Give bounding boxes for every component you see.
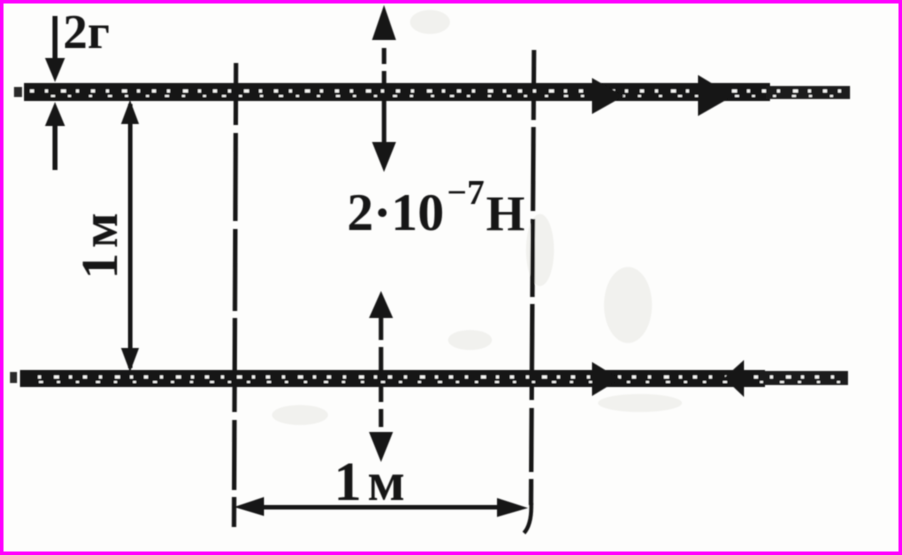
svg-text:1м: 1м <box>334 451 411 512</box>
wire diameter upper arrow (2r) <box>45 16 65 82</box>
bottom wire <box>10 370 848 387</box>
svg-text:2г: 2г <box>63 4 110 59</box>
bottom wire current arrowhead right-pointing <box>592 362 620 396</box>
force arrow top (double-headed through top wire) <box>372 5 396 172</box>
top wire current arrowhead 2 <box>698 75 733 116</box>
wire diameter lower arrow (2r) <box>45 102 65 170</box>
top wire current arrowhead 1 <box>592 78 624 114</box>
top wire <box>14 83 850 101</box>
dashed construction line right <box>524 50 534 533</box>
dimension line 1m vertical <box>121 100 139 372</box>
svg-text:−7: −7 <box>447 173 484 212</box>
scan smudge patches <box>272 10 682 425</box>
dimension arrow bottom horizontal (1m) <box>234 497 528 517</box>
label 2·10^-7 H <box>347 173 525 242</box>
svg-text:1м: 1м <box>72 208 129 279</box>
force arrow bottom (double-headed through bottom wire) <box>369 291 393 462</box>
bottom wire current arrowhead left-pointing <box>724 360 744 397</box>
dashed construction line left <box>234 63 236 527</box>
svg-text:Н: Н <box>486 185 525 241</box>
svg-text:2·10: 2·10 <box>347 184 444 242</box>
